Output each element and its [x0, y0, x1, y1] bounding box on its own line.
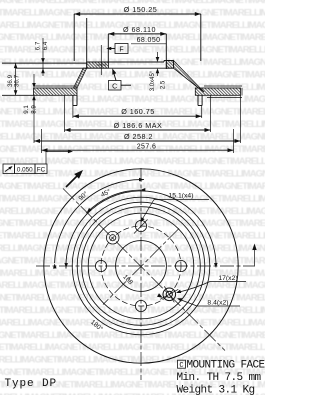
svg-text:MAGNETIMARELLIMAGNETIMARELLIMA: MAGNETIMARELLIMAGNETIMARELLIMAGNETIMAREL… [0, 342, 265, 353]
braking band right (sectioned) [195, 88, 240, 95]
right slope wall (sectioned) [174, 61, 205, 93]
bolt circle PCD (dash-dot) [101, 226, 181, 306]
feature control frame runout 0.050 FC [3, 164, 15, 174]
svg-text:6.4: 6.4 [42, 41, 49, 50]
svg-text:17(x2): 17(x2) [218, 275, 237, 282]
svg-text:68.050: 68.050 [137, 37, 161, 44]
left drum wall verticals [72, 95, 74, 105]
svg-text:Weight 3.1 Kg: Weight 3.1 Kg [177, 385, 255, 395]
svg-text:8.4(x2): 8.4(x2) [207, 300, 228, 307]
dimension Ø160.75 [72, 106, 74, 119]
svg-text:MAGNETIMARELLIMAGNETIMARELLIMA: MAGNETIMARELLIMAGNETIMARELLIMAGNETIMAREL… [0, 330, 265, 341]
dimension Ø258.2 [33, 95, 35, 143]
svg-text:0.050: 0.050 [17, 167, 33, 174]
dimension 257.6 [41, 129, 43, 153]
diagonal centerline NW-SE (cutting plane) [63, 189, 225, 351]
diagonal centerline NE-SW [103, 229, 179, 305]
svg-text:MOUNTING FACE: MOUNTING FACE [187, 360, 266, 372]
svg-text:9.1: 9.1 [23, 105, 30, 114]
right band lower edge line [207, 96, 242, 98]
svg-text:MAGNETIMARELLIMAGNETIMARELLIMA: MAGNETIMARELLIMAGNETIMARELLIMAGNETIMAREL… [0, 57, 265, 68]
datum flag F [115, 44, 128, 54]
left slope wall (sectioned) [74, 68, 87, 88]
dimension Ø186.6 MAX [64, 95, 66, 132]
locating hole SE Ø17/Ø8.4 with marks [163, 288, 176, 301]
svg-text:FC: FC [37, 167, 46, 174]
svg-text:3.0x45°: 3.0x45° [150, 70, 156, 91]
FCF leader [45, 152, 47, 165]
centerline vertical [140, 168, 142, 380]
svg-text:Ø 186.6 MAX: Ø 186.6 MAX [114, 121, 163, 130]
svg-text:MAGNETIMARELLIMAGNETIMARELLIMA: MAGNETIMARELLIMAGNETIMARELLIMAGNETIMAREL… [0, 69, 265, 80]
dimension Ø150.25 [74, 13, 201, 15]
svg-text:C: C [179, 362, 183, 370]
datum box C with leader to mounting face [109, 81, 122, 91]
bolt hole centerline (section) [100, 45, 102, 75]
svg-text:Type DP: Type DP [5, 378, 58, 390]
svg-text:6.7: 6.7 [34, 41, 41, 50]
angle arc 90deg [55, 180, 144, 263]
svg-text:Ø 150.25: Ø 150.25 [124, 5, 158, 14]
svg-text:15.1(x4): 15.1(x4) [169, 193, 194, 200]
drum background top line A [2, 62, 87, 64]
svg-text:36.7: 36.7 [14, 74, 21, 87]
svg-text:MAGNETIMARELLIMAGNETIMARELLIMA: MAGNETIMARELLIMAGNETIMARELLIMAGNETIMAREL… [0, 231, 265, 242]
bolt holes Ø15.1 [135, 220, 146, 231]
dimension Ø68.110/68.050 [108, 33, 166, 35]
hat top edge lines across bore [87, 61, 164, 63]
svg-text:MAGNETIMARELLIMAGNETIMARELLIMA: MAGNETIMARELLIMAGNETIMARELLIMAGNETIMAREL… [0, 255, 265, 266]
dimension 6.7/6.4 [42, 38, 44, 76]
right drum wall verticals [197, 95, 199, 105]
raised drum rim on hat right [163, 61, 165, 63]
band outer edge top lines (chamfer) [34, 85, 78, 87]
svg-text:MAGNETIMARELLIMAGNETIMARELLIMA: MAGNETIMARELLIMAGNETIMARELLIMAGNETIMAREL… [0, 218, 265, 229]
center bore circle [116, 241, 167, 292]
centerline horizontal [36, 265, 255, 267]
section cutting arrow (bold) [66, 173, 80, 187]
hat top flange right segment (sectioned) [166, 61, 173, 69]
hat top flange left segment (sectioned) [87, 62, 109, 68]
band bottom reference line extending left [2, 94, 34, 96]
svg-text:F: F [119, 47, 123, 54]
angle arc 45deg [86, 190, 141, 213]
svg-text:MAGNETIMARELLIMAGNETIMARELLIMA: MAGNETIMARELLIMAGNETIMARELLIMAGNETIMAREL… [0, 144, 265, 155]
svg-text:Ø 68.110: Ø 68.110 [123, 25, 156, 34]
hat inner step vertical V1 [86, 18, 88, 68]
braking band left (sectioned) [34, 88, 78, 95]
drum background line B [16, 67, 87, 69]
angle arc 180deg [66, 191, 216, 269]
svg-text:MAGNETIMARELLIMAGNETIMARELLIMA: MAGNETIMARELLIMAGNETIMARELLIMAGNETIMAREL… [0, 317, 265, 328]
svg-text:Ø 160.75: Ø 160.75 [121, 107, 155, 116]
svg-text:C: C [112, 83, 117, 90]
svg-text:Min. TH 7.5 mm: Min. TH 7.5 mm [177, 372, 262, 384]
dimension 9.1/8.9 [33, 74, 35, 86]
svg-text:Ø 258.2: Ø 258.2 [124, 132, 153, 141]
svg-text:MAGNETIMARELLIMAGNETIMARELLIMA: MAGNETIMARELLIMAGNETIMARELLIMAGNETIMAREL… [0, 243, 265, 254]
svg-text:2.5: 2.5 [161, 80, 167, 89]
svg-text:257.6: 257.6 [137, 143, 157, 150]
svg-text:MAGNETIMARELLIMAGNETIMARELLIMA: MAGNETIMARELLIMAGNETIMARELLIMAGNETIMAREL… [0, 156, 265, 167]
locating hole NW Ø17/Ø8.4 [106, 231, 119, 244]
mounting face note [178, 360, 186, 368]
front view concentric circles [44, 169, 238, 363]
svg-text:MAGNETIMARELLIMAGNETIMARELLIMA: MAGNETIMARELLIMAGNETIMARELLIMAGNETIMAREL… [0, 94, 265, 105]
dimension 36.9/36.7 [15, 63, 17, 95]
